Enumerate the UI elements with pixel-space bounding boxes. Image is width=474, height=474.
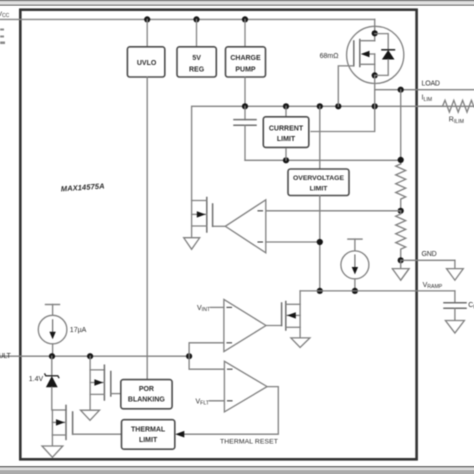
- node junction ramp source: [352, 288, 358, 294]
- svg-text:THERMAL: THERMAL: [131, 427, 166, 434]
- ground below Q3: [81, 410, 100, 420]
- svg-text:CHARGE: CHARGE: [230, 55, 261, 62]
- transistor Q4 fault clamp: [52, 405, 72, 446]
- node junction current limit bottom: [283, 157, 289, 163]
- wire Q1 gate: [338, 66, 354, 106]
- wire VFLT input: [210, 400, 225, 402]
- current source I2 ramp: [341, 239, 369, 291]
- block current limit: [263, 106, 309, 160]
- node junction divider upper: [398, 157, 404, 163]
- node junction LOAD / divider: [398, 87, 404, 93]
- ground below Q4: [42, 446, 63, 457]
- wire divider tap to OVLO comparator: [266, 210, 401, 212]
- bottom grey page band: [0, 466, 474, 474]
- resistor RILIM: [420, 100, 474, 112]
- wire OVLO comparator lower input: [266, 241, 320, 243]
- pin label LOAD: [422, 81, 440, 88]
- comparator U2 OVLO (points left): [225, 200, 265, 253]
- chip boundary box U1: [20, 10, 416, 460]
- svg-text:68mΩ: 68mΩ: [320, 53, 339, 60]
- ground below C2: [445, 321, 464, 334]
- wire VCC rail: [0, 18, 375, 20]
- wire current limit output loop: [311, 106, 375, 131]
- node junction FET source / ILIM: [372, 103, 378, 109]
- svg-text:POR: POR: [139, 386, 154, 393]
- wire fault node to comparator inputs: [189, 343, 224, 369]
- label 68mohm: [320, 53, 339, 60]
- svg-text:OVERVOLTAGE: OVERVOLTAGE: [293, 175, 344, 182]
- wire divider top: [400, 90, 402, 164]
- transistor Q2 gate driver: [192, 198, 226, 238]
- capacitor C2 VRAMP: [444, 303, 466, 321]
- node junction Q1 drain: [372, 30, 378, 36]
- node junction divider bottom GND: [398, 257, 404, 263]
- wire VINT input: [211, 306, 224, 308]
- ground internal below divider: [392, 260, 409, 280]
- node junction current limit top: [283, 103, 289, 109]
- top grey page band: [0, 0, 474, 6]
- node junction charge pump / bus: [242, 103, 248, 109]
- zener diode D1 1.4V: [45, 356, 59, 410]
- wire Q3 gate from POR blanking: [111, 393, 121, 395]
- block charge pump: [226, 47, 266, 77]
- svg-text:LIMIT: LIMIT: [277, 136, 296, 143]
- node junction Q1 source: [372, 72, 378, 78]
- block UVLO: [127, 47, 164, 77]
- wire UVLO to POR blanking: [146, 77, 148, 379]
- node junction fault at Q3: [87, 353, 93, 359]
- node junction on VCC rail at charge pump: [242, 16, 248, 22]
- wire Q1 source to LOAD: [375, 75, 474, 106]
- svg-text:GND: GND: [422, 251, 437, 258]
- svg-text:LIMIT: LIMIT: [310, 186, 329, 193]
- svg-text:PUMP: PUMP: [235, 66, 256, 73]
- power MOSFET Q1 circle: [347, 26, 404, 83]
- svg-text:5V: 5V: [192, 55, 201, 62]
- transistor Q3 POR clamp: [90, 356, 111, 410]
- svg-text:LIMIT: LIMIT: [139, 437, 158, 444]
- pin label FLT (cut): [0, 353, 12, 360]
- node junction on VCC rail at 5V REG: [193, 16, 199, 22]
- node junction OVLO input: [317, 239, 323, 245]
- power MOSFET Q1 symbol: [354, 19, 375, 75]
- resistor R2 divider lower: [396, 211, 406, 260]
- ground external GND: [447, 269, 464, 281]
- arrow into thermal limit: [175, 431, 184, 438]
- svg-text:ULT: ULT: [0, 353, 12, 360]
- wire gate bus horizontal to ILIM: [192, 106, 474, 200]
- node junction FET gate: [335, 103, 341, 109]
- label thermal reset: [220, 438, 278, 445]
- comparator U3 VINT (points right): [224, 299, 266, 351]
- comparator output transistor Q5: [266, 291, 300, 338]
- block 5V REG: [177, 47, 216, 77]
- block thermal limit: [122, 420, 175, 450]
- capacitor C1 pump reservoir: [234, 106, 256, 160]
- node junction fault at current source: [49, 353, 55, 359]
- node junction fault at comparators: [186, 353, 192, 359]
- wire charge pump down to gate bus: [244, 77, 246, 106]
- ground below Q5: [291, 338, 310, 348]
- part number label MAX14575A: [61, 181, 105, 193]
- wire thermal reset: [184, 387, 278, 435]
- svg-text:BLANKING: BLANKING: [128, 396, 165, 403]
- svg-text:17µA: 17µA: [70, 327, 87, 334]
- node junction overvoltage tap: [317, 103, 323, 109]
- wire VRAMP external: [454, 291, 456, 302]
- wire GND pin: [401, 260, 455, 268]
- svg-text:REG: REG: [189, 66, 205, 73]
- wire 5V REG feed: [196, 19, 198, 47]
- svg-text:VCC: VCC: [0, 11, 10, 19]
- wire Q4 gate from thermal limit: [73, 433, 122, 435]
- label 17uA: [70, 327, 87, 334]
- block overvoltage limit: [288, 106, 349, 291]
- node junction divider tap: [398, 208, 404, 214]
- ground below Q2: [184, 238, 200, 250]
- svg-text:CURRENT: CURRENT: [269, 125, 304, 132]
- pin label GND: [422, 251, 437, 258]
- wire FLT fault line: [0, 355, 189, 357]
- label C VRAMP (cut): [468, 302, 474, 310]
- svg-text:THERMAL RESET: THERMAL RESET: [220, 438, 278, 445]
- node junction on VCC rail at UVLO: [144, 16, 150, 22]
- svg-text:UVLO: UVLO: [137, 60, 157, 67]
- node junction ramp line: [317, 288, 323, 294]
- diode body diode of Q1: [375, 34, 395, 76]
- block POR blanking: [121, 380, 172, 409]
- wire charge pump feed: [244, 19, 246, 47]
- wire cap bottom to divider: [245, 159, 401, 161]
- pin label fragments left edge: [0, 29, 5, 45]
- label RILIM: [449, 117, 464, 125]
- current source I1 17uA: [38, 305, 67, 357]
- label 1.4V: [29, 376, 44, 383]
- wire VRAMP: [300, 290, 455, 292]
- wire UVLO feed: [146, 19, 148, 47]
- pin label VRAMP: [423, 282, 443, 290]
- label VINT: [197, 305, 211, 313]
- pin label VCC (cut): [0, 11, 10, 19]
- comparator U4 VFLT (points right): [224, 361, 267, 412]
- resistor R1 divider upper: [396, 164, 406, 211]
- svg-text:1.4V: 1.4V: [29, 376, 44, 383]
- svg-text:LOAD: LOAD: [422, 81, 440, 88]
- pin label ILIM: [422, 95, 433, 103]
- label VFLT: [195, 398, 209, 406]
